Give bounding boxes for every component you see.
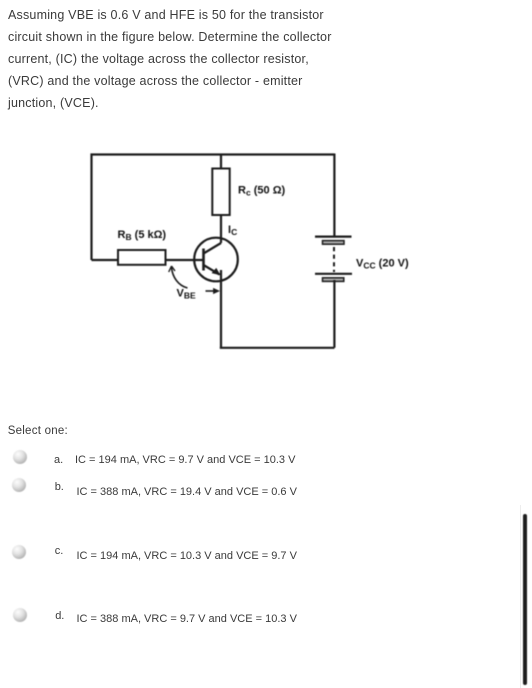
wire RB to base	[166, 259, 203, 261]
label Ic	[228, 224, 237, 237]
arrow to emitter	[206, 289, 220, 294]
label Rc (50 Ω)	[238, 185, 286, 198]
label VBE	[177, 288, 196, 301]
wire right rail upper	[333, 154, 335, 237]
resistor Rc	[212, 169, 229, 216]
wire collector	[220, 169, 222, 244]
label Vcc (20 V)	[356, 257, 409, 270]
svg-text:RB (5 kΩ): RB (5 kΩ)	[118, 229, 167, 242]
arrow VBE to base	[169, 266, 188, 288]
svg-text:Rc (50 Ω): Rc (50 Ω)	[238, 185, 286, 198]
wire bottom rail	[220, 347, 335, 349]
resistor RB	[118, 250, 166, 265]
battery Vcc cell 1	[315, 237, 352, 245]
battery Vcc cell 2	[315, 274, 352, 282]
wire right rail lower	[333, 280, 335, 348]
wire collector upper	[220, 154, 222, 169]
wire dashed between cells	[333, 247, 335, 272]
svg-text:VBE: VBE	[177, 288, 196, 301]
wire emitter down	[220, 270, 222, 348]
transistor Q1	[194, 238, 238, 282]
svg-text:IC: IC	[228, 224, 237, 237]
svg-text:VCC (20 V): VCC (20 V)	[356, 257, 409, 270]
wire base from left rail to RB	[92, 259, 119, 261]
label RB (5 kΩ)	[118, 229, 167, 242]
wire top rail	[92, 155, 335, 261]
